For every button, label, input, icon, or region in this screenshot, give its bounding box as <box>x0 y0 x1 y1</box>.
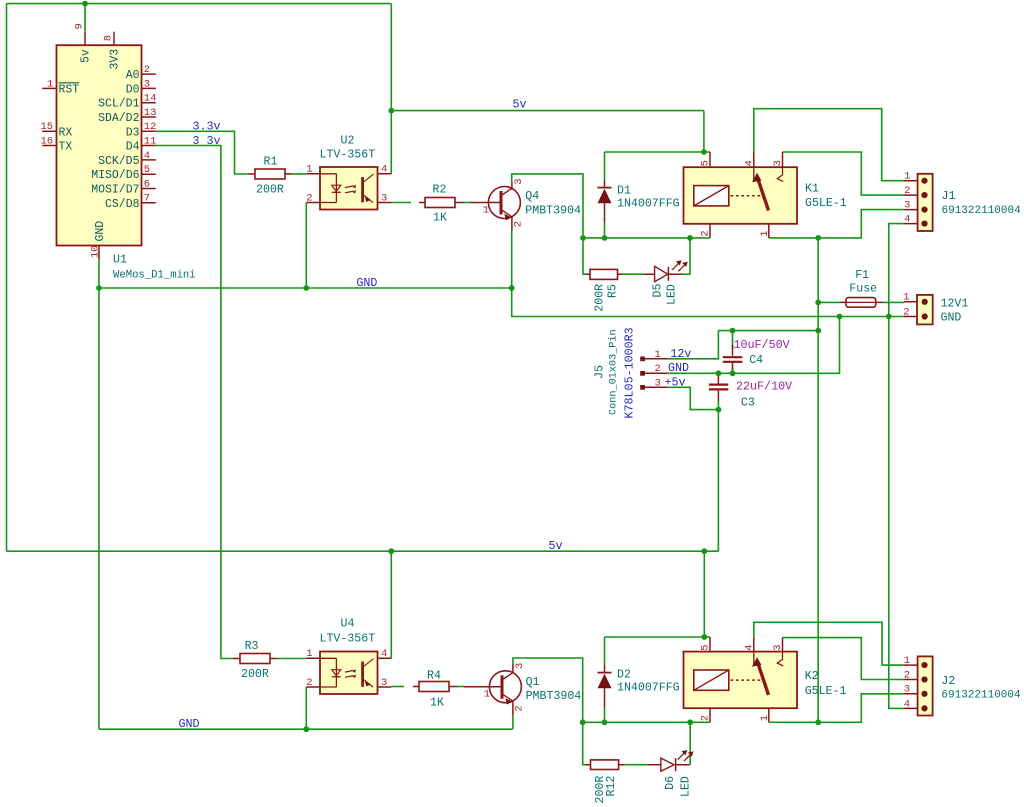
svg-text:16: 16 <box>41 135 54 147</box>
svg-text:1: 1 <box>655 349 661 361</box>
node junction 12v row tap <box>815 328 821 334</box>
svg-text:Q4: Q4 <box>525 190 539 203</box>
wire K1 coil low row <box>583 237 710 239</box>
svg-text:4: 4 <box>144 150 150 162</box>
svg-text:10: 10 <box>89 245 101 258</box>
resistor R2 <box>419 184 463 225</box>
node junction C3 top on GND row <box>716 370 722 376</box>
svg-text:12v: 12v <box>670 347 691 361</box>
node junction 5v row start <box>388 108 394 114</box>
svg-text:200R: 200R <box>256 184 284 197</box>
wire U2 pin4 vertical <box>390 4 392 174</box>
node junction LED D6 return <box>687 719 693 725</box>
wire D1 top <box>604 152 606 180</box>
svg-text:3: 3 <box>904 200 910 212</box>
svg-text:14: 14 <box>144 93 157 105</box>
node junction fuse left tap <box>815 300 821 306</box>
transistor Q1 PMBT3904 <box>464 663 581 716</box>
svg-text:A0: A0 <box>126 69 140 82</box>
svg-text:C4: C4 <box>749 354 763 367</box>
wire U2 pin2 down to GND row <box>305 203 307 289</box>
svg-text:3: 3 <box>381 677 387 689</box>
wire K1 pin4 to J1 pin1 <box>754 109 904 181</box>
wire K2 feed drop <box>703 551 705 637</box>
connector J5 Conn_01x03_Pin <box>594 327 668 418</box>
node junction fused-12V at K2 row <box>815 719 821 725</box>
wire GND row bottom <box>99 728 513 730</box>
wire R3 to U4 pin1 <box>277 658 306 660</box>
U1 pin 9 stub <box>84 32 86 46</box>
wire D2 top <box>604 637 606 665</box>
optocoupler U2 LTV-356T <box>306 135 391 210</box>
svg-text:3: 3 <box>513 178 525 184</box>
wire U4 pin2 down to GND row <box>305 687 307 729</box>
wire fused-12V vertical <box>817 238 819 722</box>
node junction D1 anode <box>602 235 608 241</box>
svg-text:2: 2 <box>904 669 910 681</box>
node junction fused-12V top <box>815 235 821 241</box>
svg-text:4: 4 <box>381 164 387 176</box>
svg-text:9: 9 <box>73 23 85 29</box>
svg-text:1: 1 <box>306 648 312 660</box>
svg-text:3V3: 3V3 <box>109 49 122 70</box>
wire J5 pin1 riser <box>668 331 719 359</box>
wire D1 bottom <box>604 222 606 238</box>
U1 pin 15 stub RX <box>42 130 56 132</box>
wire D2/K2 pin5 row <box>605 636 711 638</box>
svg-text:Fuse: Fuse <box>849 283 877 296</box>
svg-text:2: 2 <box>144 64 150 76</box>
wire Q1 emitter to GND row <box>512 715 514 729</box>
wire U4 pin3 to R4 <box>391 686 404 688</box>
wire left border vertical <box>6 4 8 552</box>
svg-text:K1: K1 <box>805 182 819 195</box>
U1 pin 16 stub TX <box>42 145 56 147</box>
svg-text:R1: R1 <box>264 155 278 168</box>
svg-text:1: 1 <box>759 715 771 721</box>
svg-text:12V1: 12V1 <box>941 298 969 311</box>
wire C4 bottom stub <box>732 367 734 373</box>
microcontroller U1 WeMos_D1_mini body <box>57 45 142 245</box>
wire +5v vertical down to 5v rail <box>717 410 719 552</box>
svg-text:10uF/50V: 10uF/50V <box>734 338 790 352</box>
svg-text:22uF/10V: 22uF/10V <box>736 380 792 394</box>
svg-text:SCL/D1: SCL/D1 <box>98 98 140 111</box>
relay K1 G5LE-1 <box>684 152 847 238</box>
LED D6 <box>648 750 694 797</box>
wire 5v bottom rail <box>7 550 719 552</box>
svg-text:2: 2 <box>513 221 525 227</box>
wire 12v row to C4 <box>718 330 818 332</box>
connector J1 691322110004 <box>904 171 1021 231</box>
svg-text:3: 3 <box>904 684 910 696</box>
wire K1 pin3 to J1 pin2 <box>783 152 904 195</box>
wire U4 pin4 vertical <box>390 551 392 658</box>
wire GND row to 12V1 pin2 <box>512 288 904 317</box>
svg-text:1: 1 <box>47 78 53 90</box>
svg-text:200R: 200R <box>241 668 269 681</box>
svg-text:GND: GND <box>356 276 377 290</box>
svg-text:5: 5 <box>700 160 712 166</box>
svg-text:2: 2 <box>306 192 312 204</box>
wire U2 pin3 to R2 <box>391 202 411 204</box>
node junction C4 top <box>730 328 736 334</box>
svg-text:1: 1 <box>483 204 489 216</box>
resistor R4 <box>413 670 457 710</box>
node junction GND branch to J5 <box>837 314 843 320</box>
svg-text:2: 2 <box>904 185 910 197</box>
svg-text:1: 1 <box>904 655 910 667</box>
svg-text:691322110004: 691322110004 <box>941 690 1021 702</box>
wire R5 to D5 <box>622 273 644 275</box>
svg-text:3 3v: 3 3v <box>193 134 221 148</box>
node junction GND at Q4 emitter <box>509 285 515 291</box>
resistor R5 <box>586 269 623 311</box>
svg-text:LED: LED <box>666 284 679 305</box>
svg-text:SCK/D5: SCK/D5 <box>98 155 140 168</box>
svg-text:12: 12 <box>144 121 157 133</box>
wire D1/K1 pin5 row <box>605 151 711 153</box>
svg-text:D0: D0 <box>126 83 140 96</box>
wire 5v top row <box>391 110 704 112</box>
wire GND row upper <box>99 287 512 289</box>
node junction Q4 collector net <box>580 235 586 241</box>
svg-text:U4: U4 <box>341 618 355 631</box>
svg-text:3: 3 <box>144 78 150 90</box>
svg-text:PMBT3904: PMBT3904 <box>525 204 581 217</box>
svg-text:C3: C3 <box>741 397 755 410</box>
svg-text:1: 1 <box>484 689 490 701</box>
wire R12 branch down <box>583 722 586 764</box>
svg-text:LTV-356T: LTV-356T <box>320 633 376 646</box>
diode D1 1N4007FFG <box>598 180 680 222</box>
svg-text:R2: R2 <box>433 184 447 197</box>
svg-text:1: 1 <box>759 230 771 236</box>
svg-text:D6: D6 <box>664 776 677 790</box>
svg-text:1K: 1K <box>433 212 447 225</box>
svg-text:+5v: +5v <box>665 375 686 389</box>
svg-text:K78L05-1000R3: K78L05-1000R3 <box>623 327 637 418</box>
svg-text:5: 5 <box>144 164 150 176</box>
svg-text:F1: F1 <box>855 269 869 282</box>
svg-text:5v: 5v <box>80 49 93 63</box>
diode D2 1N4007FFG <box>598 665 680 707</box>
wire D3 net to R1 <box>156 131 248 174</box>
svg-text:RX: RX <box>59 126 73 139</box>
svg-text:13: 13 <box>144 107 157 119</box>
connector 12V1 screw terminal <box>903 292 968 325</box>
wire K2 coil low row <box>583 721 710 723</box>
wire Q1 collector up and over <box>513 658 583 722</box>
svg-text:4: 4 <box>904 214 910 226</box>
wire U1 pin9 to 5v rail <box>84 4 86 32</box>
svg-text:1N4007FFG: 1N4007FFG <box>617 681 680 694</box>
svg-text:R5: R5 <box>607 284 620 298</box>
svg-text:K2: K2 <box>805 670 819 683</box>
svg-text:U2: U2 <box>341 135 355 148</box>
wire R12 to D6 <box>625 764 648 766</box>
svg-text:3: 3 <box>772 644 784 650</box>
node junction C3 bottom <box>716 407 722 413</box>
svg-text:5: 5 <box>700 644 712 650</box>
svg-text:200R: 200R <box>594 284 607 312</box>
wire R4 to Q1 base <box>457 686 464 688</box>
wire Q4 collector up and over <box>512 174 583 238</box>
node junction GND at U2 pin2 <box>303 285 309 291</box>
node junction GND at U4 pin2 <box>303 726 309 732</box>
svg-text:J5: J5 <box>594 365 607 379</box>
U1 pin 1 stub RST <box>42 87 56 89</box>
node junction at K1 pin5 feed <box>701 149 707 155</box>
svg-text:R12: R12 <box>605 776 618 797</box>
svg-text:LED: LED <box>680 776 693 797</box>
relay K2 G5LE-1 <box>684 637 847 722</box>
capacitor C3 <box>709 376 792 410</box>
U1 right pin stubs 2,3,14,13,12,11,4,5,6,7 <box>142 74 156 203</box>
wire D2 bottom <box>604 707 606 722</box>
wire 5v top rail from left border <box>7 3 392 5</box>
fuse F1 <box>840 269 883 307</box>
svg-text:4: 4 <box>381 648 387 660</box>
svg-text:R4: R4 <box>427 670 441 683</box>
resistor R12 <box>586 760 625 804</box>
svg-text:MOSI/D7: MOSI/D7 <box>91 184 139 197</box>
wire 5v drop to D1 row <box>703 111 705 152</box>
svg-text:GND: GND <box>179 717 200 731</box>
node junction D2 anode <box>602 719 608 725</box>
svg-text:2: 2 <box>903 306 909 318</box>
svg-text:D5: D5 <box>652 284 665 298</box>
svg-text:691322110004: 691322110004 <box>942 205 1022 217</box>
wire R1 to U2 pin1 <box>292 173 306 175</box>
svg-text:1: 1 <box>903 292 909 304</box>
svg-text:4: 4 <box>744 644 756 650</box>
wire fuse left <box>818 301 840 303</box>
svg-text:3.3v: 3.3v <box>193 119 221 133</box>
svg-text:5v: 5v <box>549 539 563 553</box>
svg-text:5v: 5v <box>513 98 527 112</box>
svg-text:RST: RST <box>59 83 80 96</box>
optocoupler U4 LTV-356T <box>306 618 391 695</box>
svg-text:4: 4 <box>744 160 756 166</box>
capacitor C4 <box>723 338 790 370</box>
svg-text:G5LE-1: G5LE-1 <box>805 197 847 210</box>
svg-text:3: 3 <box>655 377 661 389</box>
svg-text:U1: U1 <box>113 254 127 267</box>
node junction C4 bottom on GND row <box>730 370 736 376</box>
wire U1 pin10 GND down <box>98 260 100 730</box>
resistor R1 <box>248 155 292 196</box>
svg-text:2: 2 <box>306 677 312 689</box>
svg-text:3: 3 <box>514 663 526 669</box>
wire C4 top stub <box>732 331 734 349</box>
node junction pin9 tap <box>82 1 88 7</box>
svg-text:Conn_01x03_Pin: Conn_01x03_Pin <box>608 329 620 415</box>
connector J2 691322110004 <box>903 655 1021 716</box>
node junction at K2 pin5 feed <box>701 634 707 640</box>
svg-text:15: 15 <box>41 121 54 133</box>
node junction LED branch return <box>687 235 693 241</box>
node junction GND vertical crossing <box>886 314 892 320</box>
svg-text:PMBT3904: PMBT3904 <box>526 690 582 703</box>
wire D5 to return riser <box>683 238 690 274</box>
LED D5 <box>644 260 688 305</box>
wire D6 to return riser <box>689 722 691 764</box>
wire K2 pin1 row to J2 pin3 <box>769 694 904 723</box>
wire K2 pin4 to J2 pin1 <box>754 622 904 665</box>
svg-text:2: 2 <box>700 715 712 721</box>
wire K2 pin3 to J2 pin2 <box>783 638 904 680</box>
wire GND row J5 <box>668 317 840 374</box>
wire fuse right to 12V1 pin1 <box>883 301 904 303</box>
wire C3 bottom stub green <box>717 400 719 410</box>
svg-text:6: 6 <box>144 178 150 190</box>
svg-text:TX: TX <box>59 141 73 154</box>
svg-text:11: 11 <box>144 135 157 147</box>
svg-text:2: 2 <box>700 230 712 236</box>
wire GND vertical J1 pin4 to J2 pin4 <box>889 224 904 709</box>
node junction Q1 collector net <box>580 719 586 725</box>
svg-text:7: 7 <box>144 193 150 205</box>
wire D4 net down to R3 <box>156 146 233 659</box>
svg-text:CS/D8: CS/D8 <box>105 198 140 211</box>
U1 pin 8 stub <box>113 32 115 46</box>
svg-text:G5LE-1: G5LE-1 <box>805 685 847 698</box>
transistor Q4 PMBT3904 <box>470 178 581 288</box>
svg-text:SDA/D2: SDA/D2 <box>98 112 140 125</box>
svg-text:1N4007FFG: 1N4007FFG <box>617 197 680 210</box>
svg-text:WeMos_D1_mini: WeMos_D1_mini <box>113 270 196 282</box>
node junction GND at U1 pin10 <box>96 285 102 291</box>
svg-text:Q1: Q1 <box>526 676 540 689</box>
wire J5 pin3 +5v to C3 bottom <box>668 387 719 409</box>
svg-text:1K: 1K <box>430 697 444 710</box>
svg-text:3: 3 <box>381 192 387 204</box>
wire R2 to Q4 base <box>463 202 470 204</box>
svg-text:D4: D4 <box>126 141 140 154</box>
svg-text:GND: GND <box>668 361 689 375</box>
svg-text:LTV-356T: LTV-356T <box>320 149 376 162</box>
svg-text:2: 2 <box>655 363 661 375</box>
svg-text:J1: J1 <box>942 190 956 203</box>
svg-text:2: 2 <box>514 705 526 711</box>
svg-text:GND: GND <box>94 221 107 242</box>
svg-text:D1: D1 <box>617 185 631 198</box>
svg-text:D3: D3 <box>126 126 140 139</box>
svg-text:GND: GND <box>941 312 962 325</box>
svg-text:D2: D2 <box>617 669 631 682</box>
resistor R3 <box>233 640 277 681</box>
node junction 5v rail at U4 pin4 <box>388 548 394 554</box>
svg-text:3: 3 <box>772 160 784 166</box>
svg-text:J2: J2 <box>941 675 955 688</box>
svg-text:1: 1 <box>904 171 910 183</box>
U1 pin 10 stub <box>98 246 100 260</box>
svg-text:MISO/D6: MISO/D6 <box>91 169 139 182</box>
node junction 5v rail at K2 feed <box>701 548 707 554</box>
svg-text:8: 8 <box>102 35 114 41</box>
svg-text:R3: R3 <box>245 640 259 653</box>
wire K1 common row to J1 pin3 <box>769 210 904 238</box>
wire R5 branch down <box>583 238 586 274</box>
svg-text:4: 4 <box>904 698 910 710</box>
svg-text:1: 1 <box>306 164 312 176</box>
